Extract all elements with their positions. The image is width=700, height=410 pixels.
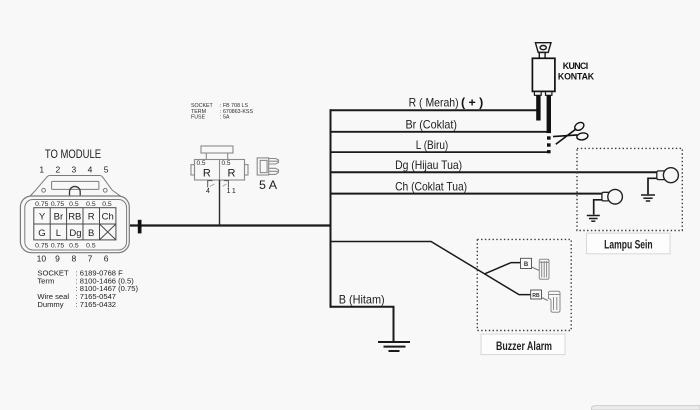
svg-text:TO MODULE: TO MODULE (45, 149, 102, 161)
svg-text:Ch: Ch (102, 212, 114, 223)
fuse holder pin 4 (208, 181, 215, 188)
fuse holder F1 body (191, 146, 248, 180)
scissors cut symbol (553, 121, 589, 144)
lamp box label frame (587, 233, 671, 254)
svg-text:10: 10 (37, 254, 47, 264)
wire Ch Coklat Tua (330, 193, 603, 195)
ignition switch cut wire dashes (547, 136, 551, 153)
svg-text:Br (Coklat): Br (Coklat) (405, 118, 457, 132)
ignition switch body (532, 58, 555, 91)
svg-text:4: 4 (206, 188, 210, 195)
svg-text:Dg (Hijau Tua): Dg (Hijau Tua) (395, 158, 462, 172)
svg-text:0.5: 0.5 (86, 242, 96, 249)
svg-text:0.75: 0.75 (51, 201, 64, 208)
svg-text:R: R (228, 167, 236, 179)
svg-text:Ch (Coklat Tua): Ch (Coklat Tua) (395, 179, 467, 193)
svg-text:Br: Br (54, 212, 64, 223)
wire Br Coklat (330, 131, 552, 133)
svg-text:B (Hitam): B (Hitam) (339, 292, 385, 306)
wire Dg Hijau Tua (330, 171, 658, 173)
wire buzzer spur to B terminal (485, 263, 521, 274)
connector J1 wire gauges bottom row (35, 242, 96, 249)
wire B Hitam (330, 307, 394, 341)
connector J1 cell grid (34, 208, 116, 240)
ground lamp LP1 (641, 195, 655, 201)
svg-text:R ( Merah): R ( Merah) (409, 95, 459, 109)
fuse holder gauge labels 0.5 (197, 160, 231, 167)
svg-text:: 5A: : 5A (220, 115, 230, 121)
ignition switch leg right (547, 95, 551, 133)
wire L Biru (330, 151, 551, 153)
connector J1 cell labels row2 G L Dg B (38, 228, 94, 239)
svg-text:( + ): ( + ) (461, 95, 483, 109)
ignition switch leg left (536, 95, 540, 120)
ground lamp LP2 (587, 216, 600, 222)
svg-text:KONTAK: KONTAK (558, 72, 595, 82)
svg-text:RB: RB (532, 293, 540, 299)
svg-text:8: 8 (72, 254, 77, 264)
svg-text:R: R (88, 212, 95, 223)
fuse holder R labels (203, 167, 236, 179)
buzzer terminal RB box (531, 290, 542, 299)
svg-text:Lampu Sein: Lampu Sein (604, 239, 653, 251)
connector J1 pin numbers 10-6 (37, 254, 109, 264)
connector J1 top keying tab (30, 176, 120, 197)
svg-text:R: R (203, 167, 211, 179)
buzzer terminal B box (521, 258, 532, 268)
svg-text:5 A: 5 A (259, 178, 277, 192)
svg-text:KUNCI: KUNCI (563, 61, 589, 71)
buzzer terminal RB link (542, 298, 548, 301)
svg-text:B: B (88, 228, 94, 239)
svg-text:: 7165-0432: : 7165-0432 (76, 300, 117, 309)
connector J1 dummy cell cross (100, 224, 116, 240)
svg-text:4: 4 (88, 165, 93, 175)
buzzer box label frame (481, 334, 565, 355)
svg-text:Dummy: Dummy (37, 300, 63, 309)
svg-text:0.5: 0.5 (69, 242, 79, 249)
blade fuse 5A symbol (257, 158, 278, 175)
svg-text:RB: RB (68, 212, 81, 223)
svg-text:5: 5 (104, 165, 109, 175)
page edge shadow bottom right (592, 406, 700, 410)
bus wire vertical (330, 109, 332, 308)
lamp LP2 socket (602, 192, 609, 201)
lamp LP1 bulb (663, 168, 678, 183)
svg-text:B: B (524, 262, 529, 268)
buzzer box dotted border (477, 239, 571, 330)
connector J1 wire gauges top row (35, 201, 112, 208)
ignition switch feet (534, 91, 552, 95)
svg-text:1: 1 (227, 188, 231, 195)
svg-text:0.75: 0.75 (35, 242, 48, 249)
fuse holder pin 1 1 (223, 181, 229, 188)
wire fuse to module wire (219, 180, 221, 226)
svg-text:Buzzer Alarm: Buzzer Alarm (496, 341, 552, 353)
buzzer connector B body (539, 259, 549, 279)
svg-text:1: 1 (39, 165, 44, 175)
wire module to bus (130, 224, 331, 226)
svg-text:L (Biru): L (Biru) (416, 138, 449, 152)
connector J1 cell labels row1 Y Br RB R Ch (39, 212, 114, 223)
svg-text:3: 3 (72, 165, 77, 175)
svg-text:2: 2 (56, 165, 61, 175)
svg-text:6: 6 (104, 254, 109, 264)
svg-text:Dg: Dg (69, 228, 81, 239)
svg-text:G: G (38, 228, 45, 239)
svg-text:Y: Y (39, 212, 46, 223)
svg-text:7: 7 (88, 254, 93, 264)
splice terminal mark (138, 220, 142, 234)
connector J1 center notch (70, 186, 81, 196)
svg-text:Term: Term (37, 276, 54, 285)
lamp box dotted border (577, 148, 682, 230)
ignition switch key head (535, 43, 551, 59)
buzzer terminal B link (532, 267, 540, 271)
svg-text:FUSE: FUSE (191, 115, 206, 121)
svg-text:0.75: 0.75 (51, 242, 64, 249)
wire R Merah (330, 109, 539, 111)
lamp LP1 socket (657, 171, 666, 180)
connector J1 inner housing (25, 200, 127, 251)
svg-text:9: 9 (55, 254, 60, 264)
connector J1 outer housing (20, 196, 129, 253)
lamp LP2 ground wire (594, 200, 603, 215)
svg-text:0.5: 0.5 (222, 160, 231, 167)
svg-text:0.75: 0.75 (35, 201, 48, 208)
lamp LP2 bulb (608, 189, 623, 204)
fuse holder part table (191, 103, 253, 121)
svg-text:0.5: 0.5 (69, 201, 79, 208)
svg-text:L: L (56, 228, 61, 239)
svg-text:0.5: 0.5 (102, 201, 112, 208)
svg-text:1: 1 (232, 188, 236, 195)
svg-text:0.5: 0.5 (86, 201, 96, 208)
buzzer connector RB body (549, 291, 561, 312)
connector J1 pin numbers 1-5 (39, 165, 108, 175)
ground main (378, 342, 410, 351)
svg-text:0.5: 0.5 (197, 160, 206, 167)
connector J1 part number table (37, 269, 138, 309)
lamp LP1 ground wire (648, 178, 658, 194)
wire bus to buzzer branch (330, 242, 531, 295)
